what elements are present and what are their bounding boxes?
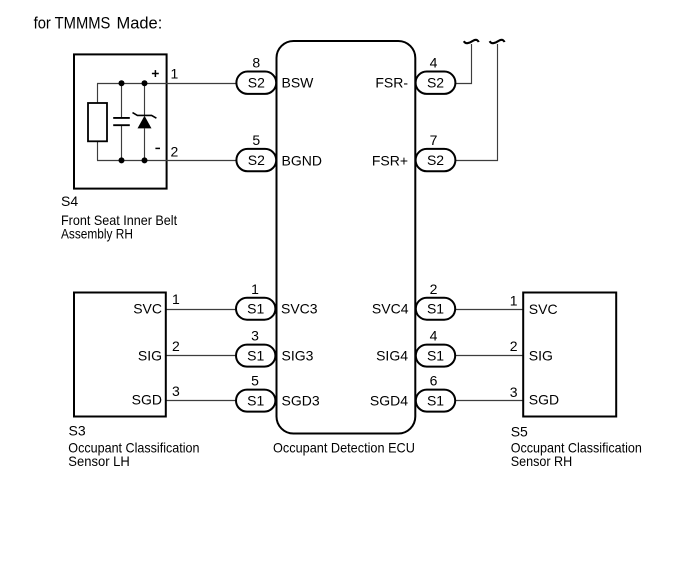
wire: S4 bottom rail to BGND S2 terminal (97, 160, 237, 162)
svg-text:S4: S4 (61, 193, 78, 209)
terminal S2 (FSR- pin 4) (416, 72, 456, 94)
svg-text:Assembly RH: Assembly RH (61, 225, 133, 241)
svg-text:1: 1 (171, 66, 179, 82)
terminal S1 (SIG3 pin 3) (236, 345, 275, 367)
svg-text:S2: S2 (427, 152, 444, 168)
polarity - (155, 147, 160, 149)
sensor box S5 (Occupant Classification Sensor RH) (523, 293, 616, 417)
wire: S3 SIG to SIG3 (166, 355, 237, 357)
terminal S1 (SIG4 pin 4) (416, 345, 455, 367)
terminal S2 (FSR+ pin 7) (416, 149, 456, 171)
shield break squiggle 1 (464, 40, 479, 43)
svg-text:S1: S1 (427, 301, 444, 317)
svg-text:BGND: BGND (282, 153, 322, 169)
wire: SGD4 to S5 SGD (455, 400, 524, 402)
wire: capacitor branch vertical (121, 84, 123, 118)
svg-text:SIG4: SIG4 (376, 348, 408, 364)
svg-text:8: 8 (252, 55, 260, 71)
svg-text:S3: S3 (69, 423, 86, 439)
terminal S1 (SGD3 pin 5) (236, 390, 275, 412)
terminal S1 (SVC3 pin 1) (236, 298, 275, 320)
svg-text:6: 6 (430, 373, 438, 389)
wire: FSR+ to shield break (455, 44, 498, 161)
svg-text:1: 1 (172, 291, 180, 307)
terminal S1 (SVC4 pin 2) (416, 298, 455, 320)
svg-text:S1: S1 (427, 392, 444, 408)
svg-text:S1: S1 (247, 392, 264, 408)
wire: FSR- to shield break (455, 44, 472, 84)
sensor box S3 (Occupant Classification Sensor LH) (74, 293, 166, 417)
svg-text:SVC: SVC (133, 301, 162, 317)
svg-text:4: 4 (430, 328, 438, 344)
wire: zener branch vertical (144, 84, 146, 116)
svg-text:SIG3: SIG3 (282, 348, 314, 364)
svg-text:2: 2 (172, 338, 180, 354)
capacitor (in S4) (113, 117, 130, 119)
svg-text:S1: S1 (427, 347, 444, 363)
svg-text:Sensor RH: Sensor RH (511, 453, 573, 469)
connector box S4 (Front Seat Inner Belt Assembly RH) (74, 54, 167, 188)
wire: S4 top rail to BSW S2 terminal (97, 83, 237, 85)
terminal S2 (BSW pin 8) (236, 72, 276, 94)
terminal S1 (SGD4 pin 6) (416, 390, 455, 412)
svg-text:S1: S1 (247, 347, 264, 363)
svg-text:5: 5 (252, 132, 260, 148)
svg-text:FSR+: FSR+ (372, 153, 408, 169)
wire: S3 SGD to SGD3 (166, 400, 237, 402)
svg-text:5: 5 (251, 373, 259, 389)
svg-text:Occupant Detection ECU: Occupant Detection ECU (273, 440, 415, 456)
svg-text:3: 3 (172, 383, 180, 399)
Occupant Detection ECU body U1 (277, 41, 416, 434)
svg-text:SGD3: SGD3 (282, 393, 320, 409)
wire: S3 SVC to SVC3 (166, 309, 237, 311)
terminal S2 (BGND pin 5) (236, 149, 276, 171)
svg-text:3: 3 (510, 384, 518, 400)
wire: SIG4 to S5 SIG (455, 355, 524, 357)
junction dot bottom-zener (142, 157, 148, 163)
svg-text:SVC4: SVC4 (372, 301, 409, 317)
svg-text:SGD: SGD (132, 392, 162, 408)
polarity + (152, 70, 159, 77)
svg-text:S2: S2 (248, 152, 265, 168)
svg-text:SGD: SGD (529, 392, 559, 408)
wire: resistor branch vertical (97, 84, 99, 104)
svg-text:BSW: BSW (282, 75, 315, 91)
junction dot top-zener (142, 80, 148, 86)
svg-text:SIG: SIG (529, 348, 553, 364)
svg-text:SGD4: SGD4 (370, 393, 408, 409)
svg-text:SVC3: SVC3 (281, 301, 318, 317)
svg-text:3: 3 (251, 328, 259, 344)
svg-text:S5: S5 (511, 423, 528, 439)
svg-text:S2: S2 (427, 75, 444, 91)
svg-text:S1: S1 (247, 301, 264, 317)
resistor (in S4) (88, 103, 107, 141)
svg-text:2: 2 (430, 281, 438, 297)
svg-text:SVC: SVC (529, 301, 558, 317)
junction dot top-capacitor (119, 80, 125, 86)
shield break squiggle 2 (490, 40, 505, 43)
svg-text:Sensor LH: Sensor LH (68, 453, 130, 469)
svg-text:2: 2 (510, 338, 518, 354)
svg-text:S2: S2 (248, 75, 265, 91)
junction dot bottom-capacitor (119, 157, 125, 163)
zener diode (in S4) (133, 113, 157, 119)
svg-text:for TMMMSMade:: for TMMMSMade: (34, 13, 163, 32)
svg-text:SIG: SIG (138, 348, 162, 364)
svg-text:4: 4 (430, 55, 438, 71)
svg-text:FSR-: FSR- (375, 75, 408, 91)
svg-text:2: 2 (171, 143, 179, 159)
svg-text:1: 1 (251, 281, 259, 297)
svg-text:1: 1 (510, 293, 518, 309)
svg-text:7: 7 (430, 132, 438, 148)
wire: SVC4 to S5 SVC (455, 309, 524, 311)
